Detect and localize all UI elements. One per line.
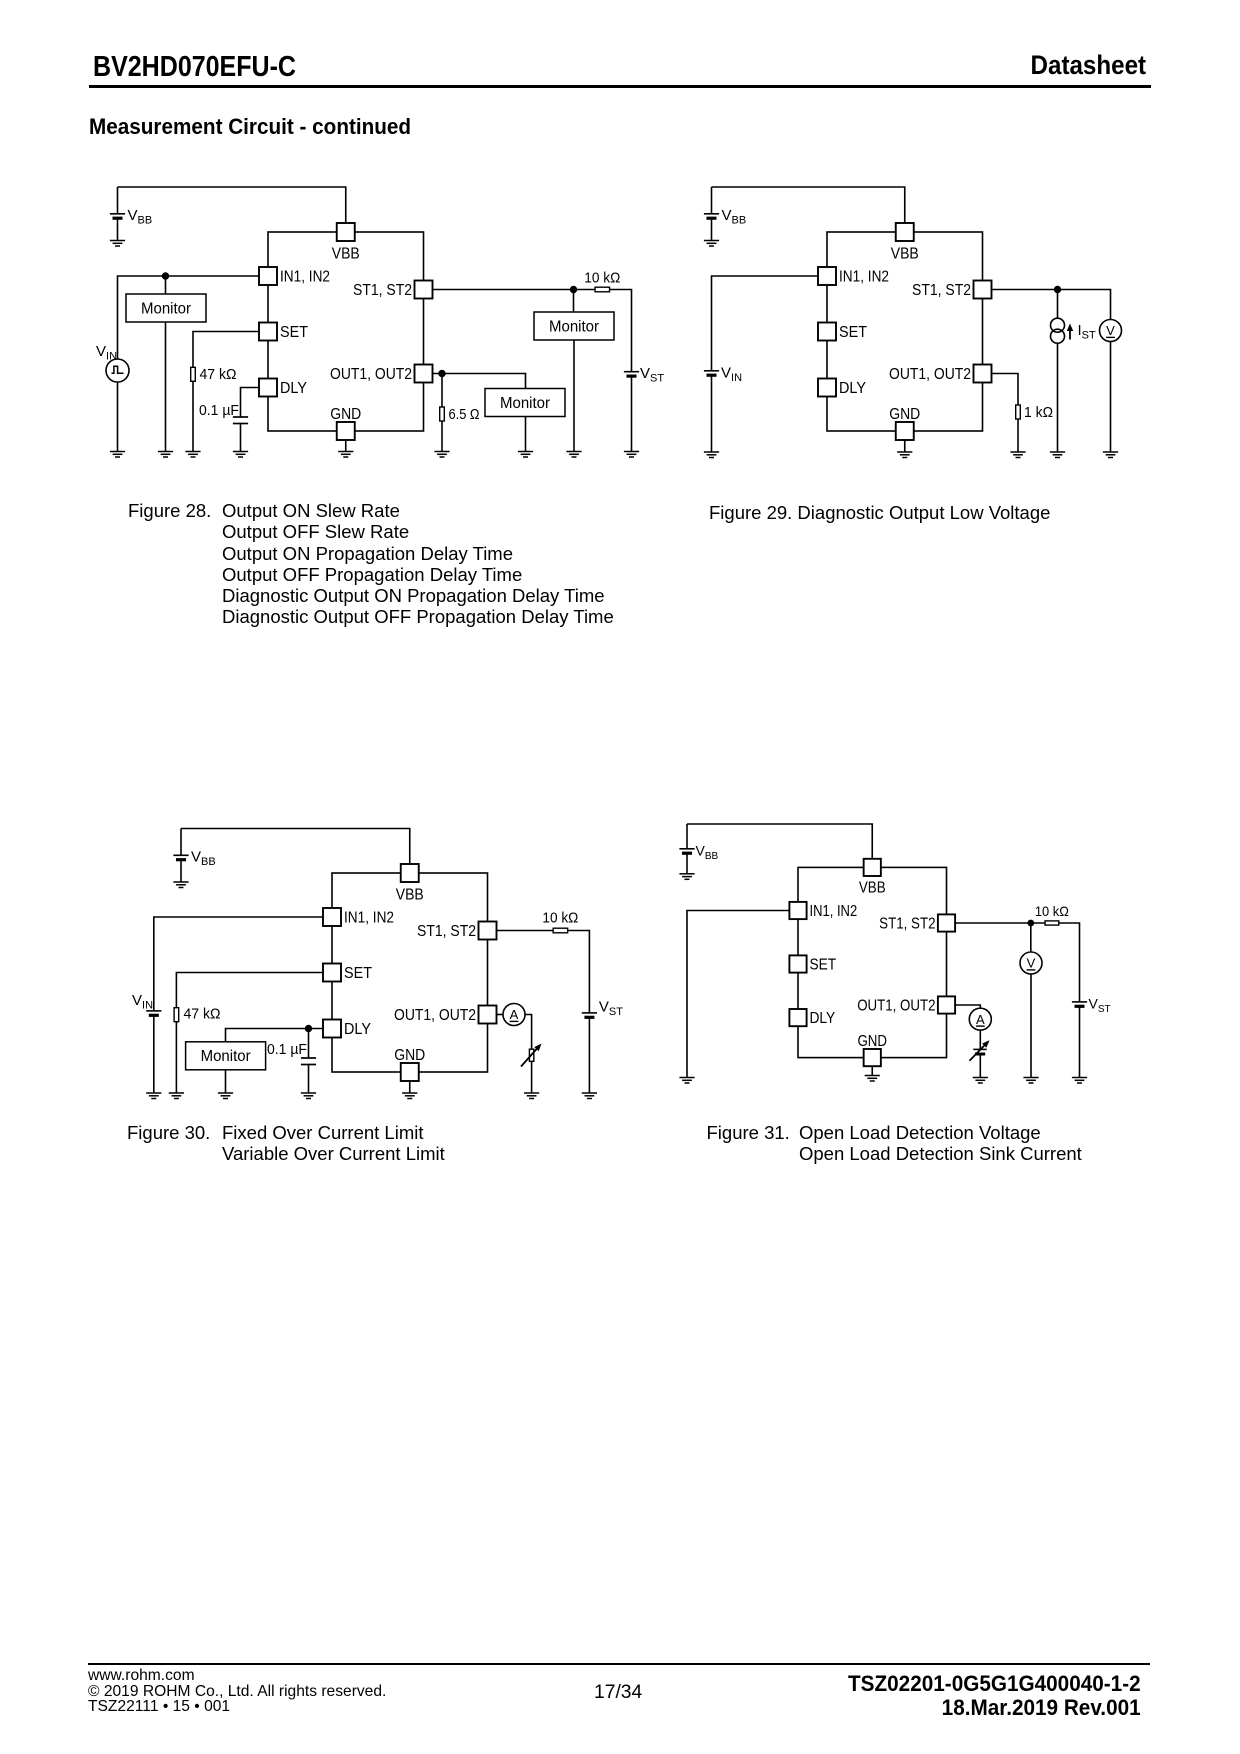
- wire voltmeter to ground: [1030, 974, 1032, 1078]
- wire GND pin to ground: [871, 1066, 873, 1075]
- node junction on OUT wire: [438, 370, 445, 377]
- wire IN1 to VIN battery: [712, 276, 819, 371]
- ground at battery VBB: [679, 874, 694, 880]
- wire GND pin to ground: [409, 1081, 411, 1093]
- wire resistor 10k to VST: [1059, 923, 1080, 1002]
- battery VST: [582, 1012, 597, 1014]
- ground at VST: [582, 1093, 597, 1099]
- variable sink element: [973, 1048, 986, 1050]
- pulse source VIN: [106, 359, 129, 382]
- header doc type: [1030, 50, 1146, 81]
- wire Monitor 3 to ground: [525, 417, 527, 452]
- ground at GND pin: [402, 1093, 417, 1099]
- ground at battery VBB: [110, 241, 125, 247]
- ground at Monitor: [218, 1093, 233, 1099]
- figure 31 caption number: [707, 1122, 790, 1143]
- svg-text:OUT1, OUT2: OUT1, OUT2: [857, 997, 935, 1014]
- ground at GND pin: [897, 452, 912, 458]
- ground at GND pin: [865, 1076, 880, 1082]
- node junction on ST wire: [1054, 286, 1061, 293]
- resistor 47k: [174, 1008, 179, 1022]
- svg-text:V: V: [1027, 956, 1036, 971]
- battery VIN: [704, 370, 719, 372]
- wire OUT to ammeter: [497, 1014, 504, 1016]
- capacitor 0.1uF: [233, 416, 248, 418]
- node junction on DLY wire: [305, 1025, 312, 1032]
- pin IN1, IN2: [818, 267, 836, 285]
- monitor box 3 (OUT): [485, 389, 565, 417]
- node junction on ST wire: [1027, 920, 1034, 927]
- ground at VST: [1072, 1078, 1087, 1084]
- wire Monitor to ground: [225, 1070, 227, 1093]
- IC body outline: [827, 232, 983, 431]
- pin GND: [864, 1049, 881, 1066]
- svg-text:VST: VST: [1089, 995, 1111, 1015]
- section heading: [89, 114, 411, 140]
- battery VST: [1072, 1001, 1087, 1003]
- ground at 47k: [185, 452, 200, 458]
- pin DLY: [789, 1009, 806, 1026]
- wire resistor 47k to ground: [192, 381, 194, 451]
- battery VBB: [180, 829, 182, 856]
- wire VBB supply top rail: [687, 824, 872, 859]
- wire variable resistor to ground: [531, 1061, 533, 1093]
- pin OUT1, OUT2: [974, 365, 992, 383]
- pin ST1, ST2: [415, 281, 433, 299]
- svg-text:GND: GND: [857, 1033, 887, 1050]
- figure 31 caption items: [799, 1122, 1082, 1165]
- wire resistor 6.5 to ground: [441, 421, 443, 452]
- pin DLY: [818, 379, 836, 397]
- svg-text:10 kΩ: 10 kΩ: [1035, 904, 1069, 919]
- wire junction to capacitor: [308, 1029, 310, 1059]
- pin SET: [789, 955, 806, 972]
- footer doc number and revision: [848, 1672, 1141, 1720]
- wire IN1 to ground rail: [687, 911, 789, 1078]
- ground at variable resistor: [524, 1093, 539, 1099]
- footer left block: [88, 1668, 386, 1715]
- wire resistor 1k to ground: [1017, 419, 1019, 452]
- ground at capacitor: [301, 1093, 316, 1099]
- svg-text:DLY: DLY: [809, 1010, 835, 1027]
- ground at Monitor 1: [158, 452, 173, 458]
- ammeter A: [503, 1004, 525, 1026]
- ground at VST: [624, 452, 639, 458]
- IC body outline: [268, 232, 424, 431]
- wire ammeter to variable resistor: [525, 1015, 532, 1050]
- wire VBB supply top rail: [712, 187, 905, 223]
- pin SET: [259, 323, 277, 341]
- wire OUT to Monitor 3: [433, 374, 526, 389]
- pin VBB: [864, 859, 881, 876]
- resistor 1k: [1016, 405, 1021, 419]
- pin GND: [896, 422, 914, 440]
- ground at current source: [1050, 452, 1065, 458]
- arrow variable sink: [970, 1044, 986, 1061]
- arrow current direction: [1069, 329, 1071, 340]
- ground at Monitor 3: [518, 452, 533, 458]
- wire junction to voltmeter: [1030, 923, 1032, 952]
- pin IN1, IN2: [789, 902, 806, 919]
- monitor box 1 (IN): [126, 294, 206, 322]
- ground at 47k: [169, 1093, 184, 1099]
- ground at voltmeter: [1023, 1078, 1038, 1084]
- figure 30 caption items: [222, 1122, 445, 1165]
- battery VIN: [146, 1010, 161, 1012]
- wire ST junction to Monitor 2: [573, 290, 575, 313]
- pin GND: [401, 1063, 419, 1081]
- ground at Monitor 2: [566, 452, 581, 458]
- pin ST1, ST2: [974, 281, 992, 299]
- header title: [93, 51, 296, 84]
- resistor 47k: [191, 367, 196, 381]
- wire resistor 10k to VST: [567, 931, 589, 1013]
- pin DLY: [259, 379, 277, 397]
- wire DLY to Monitor: [226, 1029, 324, 1042]
- pin OUT1, OUT2: [415, 365, 433, 383]
- header rule: [89, 85, 1151, 88]
- figure 29 caption: [709, 502, 1050, 523]
- resistor 6.5: [440, 407, 445, 421]
- wire voltmeter to ground: [1110, 342, 1112, 453]
- wire GND pin to ground: [345, 440, 347, 452]
- pin ST1, ST2: [938, 914, 955, 931]
- wire IN1 to VIN source: [118, 276, 260, 359]
- ground at variable sink: [973, 1078, 988, 1084]
- pin IN1, IN2: [259, 267, 277, 285]
- node junction on IN wire: [162, 272, 169, 279]
- pin SET: [323, 964, 341, 982]
- wire resistor 10k to VST: [610, 290, 632, 372]
- wire variable sink to ground: [979, 1054, 981, 1078]
- svg-text:IN1, IN2: IN1, IN2: [809, 903, 857, 920]
- IC body outline: [332, 873, 488, 1072]
- figure 28 caption number: [128, 500, 211, 521]
- battery VST: [624, 371, 639, 373]
- ground at VIN: [146, 1093, 161, 1099]
- ground at battery VBB: [173, 882, 188, 888]
- wire junction to Monitor 1: [165, 276, 167, 294]
- pin SET: [818, 323, 836, 341]
- footer rule: [88, 1663, 1150, 1665]
- wire capacitor to ground: [240, 424, 242, 452]
- svg-text:ST1, ST2: ST1, ST2: [879, 915, 935, 932]
- ground at capacitor: [233, 452, 248, 458]
- wire Monitor 1 to ground: [165, 322, 167, 452]
- wire ST to resistor 10k: [433, 289, 596, 291]
- ground at VIN: [704, 452, 719, 458]
- pin IN1, IN2: [323, 908, 341, 926]
- wire OUT to resistor 1k: [992, 374, 1019, 406]
- ground at VIN: [110, 452, 125, 458]
- monitor box (DLY): [186, 1042, 266, 1070]
- wire capacitor to ground: [308, 1065, 310, 1094]
- resistor 10k: [595, 287, 610, 292]
- pin DLY: [323, 1020, 341, 1038]
- figure 30 caption number: [127, 1122, 210, 1143]
- pin VBB: [401, 864, 419, 882]
- wire IN1 to VIN battery: [154, 917, 323, 1011]
- variable resistor: [529, 1049, 533, 1061]
- wire current source to ground: [1057, 343, 1059, 452]
- battery VBB: [117, 187, 119, 214]
- wire ST to voltmeter branch: [992, 290, 1111, 320]
- ground at 1k: [1010, 452, 1025, 458]
- resistor 10k: [553, 928, 568, 933]
- svg-text:A: A: [976, 1012, 985, 1027]
- IC body outline: [798, 867, 947, 1057]
- wire VBB supply top rail: [118, 187, 346, 223]
- pin VBB: [896, 223, 914, 241]
- wire OUT to ammeter: [955, 1005, 980, 1009]
- capacitor 0.1uF: [301, 1057, 316, 1059]
- arrow variable resistor: [521, 1048, 538, 1067]
- wire junction to current source: [1057, 290, 1059, 319]
- wire resistor 47k to ground: [175, 1022, 177, 1093]
- ground at voltmeter: [1103, 452, 1118, 458]
- battery VBB: [686, 824, 688, 849]
- wire DLY to capacitor: [241, 388, 260, 418]
- voltmeter V: [1020, 952, 1042, 974]
- current source IST: [1051, 318, 1065, 332]
- wire SET to resistor 47k: [193, 332, 259, 368]
- pin VBB: [337, 223, 355, 241]
- monitor box 2 (ST): [534, 312, 614, 340]
- ground at IN rail: [679, 1078, 694, 1084]
- ground at GND pin: [338, 452, 353, 458]
- wire ST to resistor 10k: [955, 922, 1045, 924]
- svg-text:VBB: VBB: [696, 843, 719, 863]
- pin ST1, ST2: [479, 922, 497, 940]
- node junction on ST wire: [570, 286, 577, 293]
- figure 28 caption items: [222, 500, 614, 628]
- wire VIN source to ground: [117, 382, 119, 452]
- voltmeter V: [1100, 320, 1122, 342]
- wire GND pin to ground: [904, 440, 906, 452]
- pin GND: [337, 422, 355, 440]
- ground at battery VBB: [704, 241, 719, 247]
- footer page number: [594, 1682, 642, 1704]
- wire ST to resistor 10k: [497, 930, 554, 932]
- battery VBB: [711, 187, 713, 214]
- pin OUT1, OUT2: [938, 996, 955, 1013]
- svg-text:VBB: VBB: [859, 880, 886, 897]
- wire Monitor 2 to ground: [573, 340, 575, 452]
- ground at 6.5: [434, 452, 449, 458]
- wire ammeter to variable sink: [979, 1030, 981, 1050]
- pin OUT1, OUT2: [479, 1006, 497, 1024]
- resistor 10k: [1045, 921, 1059, 925]
- wire junction to resistor 6.5: [441, 374, 443, 408]
- wire SET to resistor 47k: [176, 973, 323, 1008]
- svg-text:SET: SET: [809, 956, 836, 973]
- ammeter A: [969, 1008, 991, 1030]
- wire VBB supply top rail: [181, 829, 410, 865]
